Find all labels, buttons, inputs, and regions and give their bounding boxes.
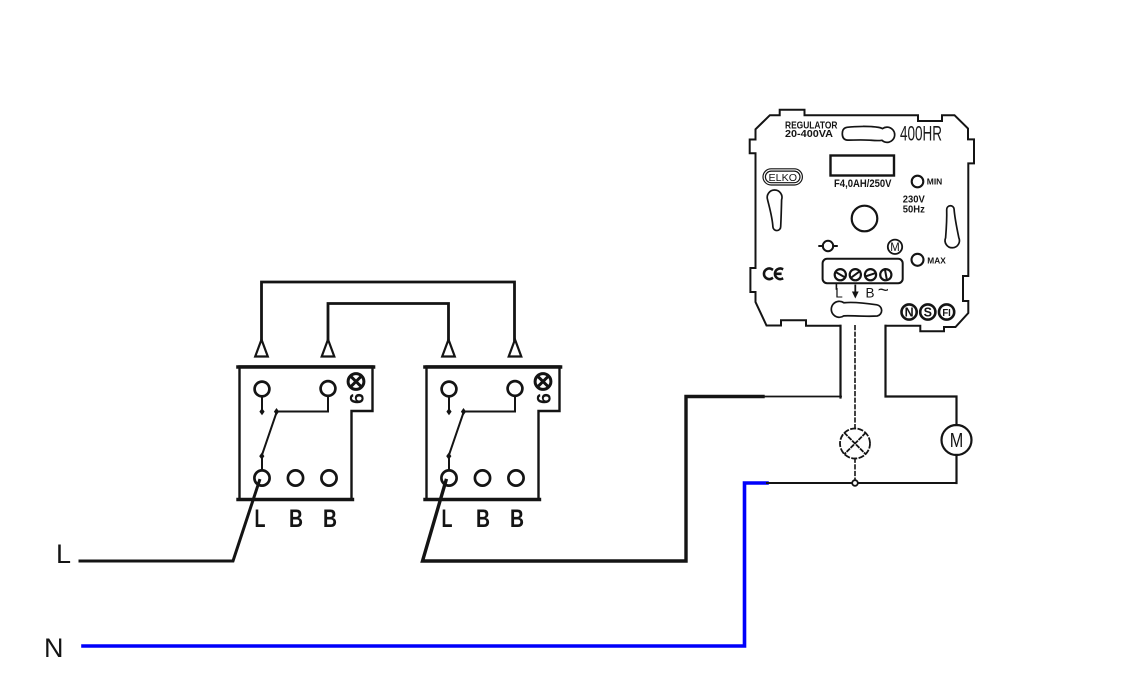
svg-text:F4,0AH/250V: F4,0AH/250V: [834, 178, 892, 190]
regulator U1 plate outline: [750, 110, 974, 331]
U1 MIN trimmer: [912, 176, 924, 188]
switch S2 terminal B1 (top-left): [442, 382, 457, 397]
wire: neutral link to lamp and motor: [767, 482, 957, 484]
switch S1 body outline: [240, 367, 373, 500]
switch S2 link wire B2 to pivot: [464, 396, 516, 412]
svg-text:50Hz: 50Hz: [903, 204, 925, 215]
wire: dashed load lead from regulator: [854, 326, 856, 429]
switch S1 stem from B1: [261, 397, 263, 410]
U1 ELKO logo: [763, 169, 802, 185]
svg-text:B: B: [866, 286, 875, 301]
U1 fuse box: [831, 156, 895, 176]
switch S1 top edge (thick): [238, 365, 374, 369]
switch S1 terminal L (bottom-left): [254, 470, 269, 485]
svg-text:S: S: [924, 305, 932, 319]
svg-text:6: 6: [346, 393, 368, 405]
U1 trimmer pot: [823, 241, 833, 251]
connector arrow above S1 terminal B2: [322, 340, 335, 357]
switch S2 stem from B1: [448, 397, 450, 410]
wire: N feed (blue): [83, 483, 767, 646]
svg-text:MAX: MAX: [927, 255, 946, 265]
switch S1 bottom edge (thick): [238, 498, 353, 501]
wire: L feed to S1: [80, 481, 260, 562]
switch S2 top edge (thick): [425, 365, 561, 369]
motor M1: [942, 425, 972, 455]
switch S2 lamp mark: [535, 374, 551, 390]
svg-text:M: M: [890, 240, 900, 254]
U1 approval mark S: [920, 304, 935, 319]
switch S1 lamp mark: [348, 374, 364, 390]
switch S2 lever end diamond: [446, 453, 451, 460]
U1 bottom mounting slot: [831, 301, 881, 317]
switch S1 stem to L terminal: [261, 457, 263, 471]
U1 terminal label L stub: [835, 283, 837, 289]
U1 terminal block: [823, 259, 903, 283]
switch S1 lever arm: [262, 413, 277, 456]
svg-text:400HR: 400HR: [900, 122, 942, 146]
switch S1 terminal B2 (top-right): [321, 381, 336, 396]
switch S2 bottom edge (thick): [425, 498, 540, 501]
svg-text:~: ~: [878, 281, 889, 302]
svg-text:L: L: [56, 539, 71, 569]
svg-text:L: L: [255, 505, 266, 533]
svg-text:L: L: [442, 505, 453, 533]
U1 terminal screw 1: [835, 269, 846, 280]
switch S2 stem to L terminal: [448, 457, 450, 471]
wire: dashed lead lamp to neutral: [854, 459, 856, 480]
U1 M mark: [888, 240, 902, 254]
svg-text:M: M: [950, 430, 964, 452]
wire: top outer link S1.B1 to S2.B2: [262, 282, 515, 340]
U1 MAX trimmer: [912, 254, 924, 266]
switch S2 terminal (bottom-mid): [475, 470, 490, 485]
wire: top inner link S1.B2 to S2.B1: [328, 304, 449, 341]
switch S1 terminal (bottom-right): [321, 470, 336, 485]
wire: thin continuation to regulator left stub: [763, 396, 841, 398]
U1 left mounting slot: [767, 190, 782, 231]
lamp E1 (dashed, alternative load): [840, 429, 870, 459]
svg-text:B: B: [510, 505, 524, 533]
switch S2 stem tip diamond: [446, 408, 451, 415]
svg-text:B: B: [476, 505, 490, 533]
U1 approval mark N: [902, 304, 917, 319]
switch S1 terminal B1 (top-left): [255, 382, 270, 397]
U1 terminal screw 2: [850, 269, 861, 280]
U1 top mounting slot: [842, 126, 894, 142]
U1 terminal label arrow down: [854, 286, 856, 294]
U1 control knob: [852, 206, 878, 232]
svg-text:B: B: [289, 505, 303, 533]
svg-text:6: 6: [533, 393, 555, 405]
regulator U1 right stub wire to motor: [886, 326, 957, 425]
svg-text:L: L: [835, 286, 843, 301]
U1 terminal screw 3: [865, 269, 876, 280]
connector arrow above S2 terminal B2: [509, 340, 522, 357]
switch S1 pivot diamond: [274, 408, 279, 415]
U1 right mounting slot: [945, 206, 959, 248]
wire: motor to neutral: [955, 455, 957, 483]
wire: S2 L terminal to regulator input: [423, 397, 764, 562]
switch S1 link wire B2 to pivot: [277, 396, 329, 412]
switch S2 body outline: [427, 367, 560, 500]
connector arrow above S2 terminal B1: [442, 340, 455, 357]
switch S2 terminal (bottom-right): [508, 470, 523, 485]
svg-text:20-400VA: 20-400VA: [785, 129, 833, 140]
switch S2 terminal L (bottom-left): [441, 470, 456, 485]
U1 terminal screw 4: [880, 269, 891, 280]
switch S2 lever arm: [449, 413, 464, 456]
svg-text:ELKO: ELKO: [769, 173, 798, 184]
svg-text:N: N: [905, 305, 914, 319]
U1 CE mark: [764, 269, 782, 280]
switch S1 lever end diamond: [259, 453, 264, 460]
svg-text:FI: FI: [942, 308, 951, 319]
U1 approval mark FI: [939, 304, 954, 319]
switch S1 stem tip diamond: [259, 408, 264, 415]
regulator U1 left stub wire: [839, 326, 841, 398]
junction node on neutral: [852, 480, 858, 486]
svg-text:N: N: [44, 633, 64, 663]
svg-text:B: B: [323, 505, 337, 533]
svg-text:MIN: MIN: [927, 177, 943, 186]
connector arrow above S1 terminal B1: [255, 340, 268, 357]
switch S2 terminal B2 (top-right): [508, 381, 523, 396]
switch S1 terminal (bottom-mid): [288, 470, 303, 485]
switch S2 pivot diamond: [461, 408, 466, 415]
